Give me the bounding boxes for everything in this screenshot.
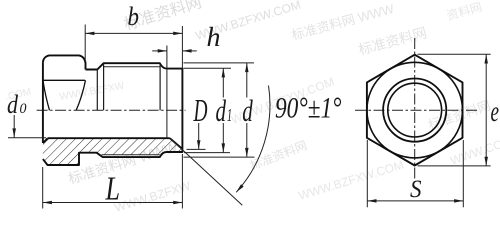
svg-text:资料网: 资料网: [445, 0, 483, 23]
svg-text:d: d: [242, 93, 253, 128]
h dimension: [152, 50, 167, 52]
L dimension: [42, 167, 44, 209]
svg-text:WWW.BZFXW.COM: WWW.BZFXW.COM: [297, 158, 406, 203]
svg-text:L: L: [105, 171, 120, 208]
section hatching (lower half): [43, 138, 183, 165]
hex facet line: [44, 79, 86, 81]
svg-text:h: h: [207, 22, 221, 52]
svg-text:WWW.BZFXW: WWW.BZFXW: [113, 178, 193, 215]
vertical lines at neck chamfer: [96, 70, 98, 111]
extension lines right (top): [184, 62, 255, 64]
90 degree angle leg (chamfer extended): [171, 139, 243, 205]
s dimension: [366, 140, 368, 207]
svg-text:WWW.BZFXW: WWW.BZFXW: [59, 81, 126, 103]
svg-text:WWW.COM: WWW.COM: [448, 134, 500, 168]
svg-text:d: d: [7, 90, 19, 119]
d dimension: [246, 63, 248, 98]
bore circle: [388, 83, 442, 137]
d1 dimension: [222, 68, 224, 97]
b dimension: [84, 25, 86, 62]
svg-text:1: 1: [227, 105, 232, 125]
hex facet chamfer curves (middle facet): [43, 80, 50, 110]
svg-text:D: D: [193, 92, 208, 128]
hex left face full vertical: [42, 62, 44, 143]
part outline: hex head silhouette (top half): [43, 55, 86, 69]
chamfer circle (inscribed): [367, 62, 463, 158]
thread minor line (top, thin): [104, 66, 160, 68]
d0 dimension: [8, 137, 46, 139]
svg-text:0: 0: [20, 101, 27, 117]
svg-text:b: b: [128, 2, 140, 31]
svg-text:e: e: [491, 95, 500, 128]
top profile: neck, thread body, pilot, end face: [43, 63, 183, 165]
svg-text:S: S: [410, 176, 422, 203]
D dimension: [198, 123, 200, 149]
thread minor line (bottom, thin, hatch boundary): [102, 154, 160, 156]
e dimension: [418, 53, 491, 55]
svg-text:90°±1°: 90°±1°: [275, 92, 342, 125]
centerlines: [355, 109, 479, 111]
hexagon: [367, 55, 463, 166]
svg-text:d: d: [216, 93, 227, 128]
svg-text:标准资料网: 标准资料网: [248, 138, 309, 173]
angle arc: [236, 86, 270, 193]
centerline (axis): [37, 109, 186, 111]
bore line (section): [48, 137, 170, 139]
extension lines right (bottom): [187, 148, 206, 150]
thread circle: [383, 79, 446, 142]
svg-text:标准资料网: 标准资料网: [357, 24, 429, 58]
vertical lines at pilot step: [159, 63, 161, 110]
countersink chamfer 90deg: [170, 138, 183, 149]
bore entry chamfer left: [43, 138, 48, 143]
